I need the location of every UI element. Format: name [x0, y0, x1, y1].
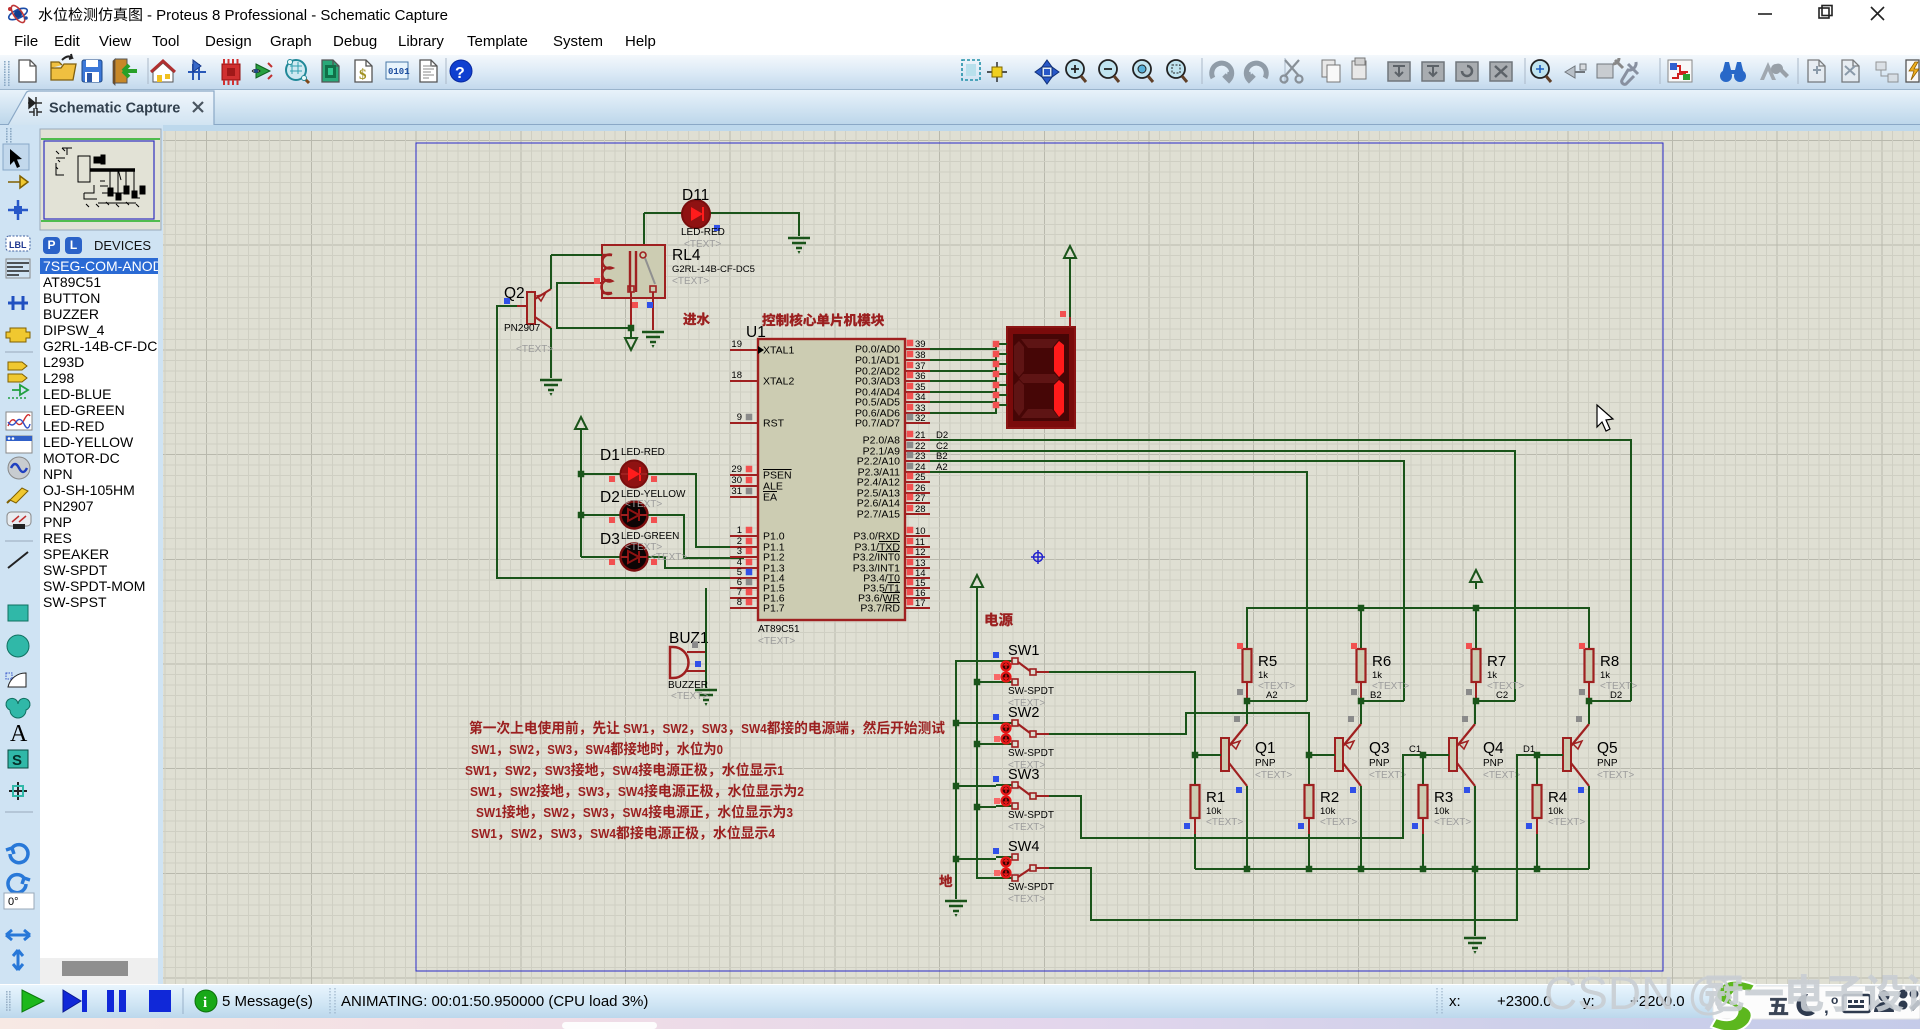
svg-text:SW3: SW3: [545, 764, 571, 778]
svg-text:39: 39: [915, 339, 926, 350]
svg-text:P2.7/A15: P2.7/A15: [857, 509, 900, 521]
svg-text:BUZZER: BUZZER: [668, 680, 708, 691]
svg-text:SW1: SW1: [1008, 643, 1039, 659]
svg-text:PN2907: PN2907: [504, 323, 541, 334]
svg-text:8: 8: [737, 597, 742, 608]
svg-text:SW1: SW1: [465, 764, 491, 778]
svg-text:R2: R2: [1320, 789, 1339, 806]
svg-text:D2: D2: [600, 489, 620, 506]
svg-text:10: 10: [915, 526, 926, 537]
svg-text:19: 19: [731, 339, 742, 350]
svg-text:Q2: Q2: [504, 285, 525, 302]
svg-text:PNP: PNP: [1597, 758, 1618, 769]
svg-text:SW3: SW3: [583, 806, 609, 820]
svg-text:17: 17: [915, 598, 926, 609]
svg-text:SW-SPDT: SW-SPDT: [1008, 882, 1054, 893]
svg-text:Schematic Capture: Schematic Capture: [49, 101, 180, 117]
svg-text:34: 34: [915, 392, 926, 403]
svg-text:3: 3: [786, 806, 793, 820]
svg-text:27: 27: [915, 493, 926, 504]
svg-text:S: S: [12, 752, 22, 769]
svg-text:<TEXT>: <TEXT>: [1008, 894, 1045, 905]
svg-text:<TEXT>: <TEXT>: [1597, 770, 1634, 781]
svg-text:32: 32: [915, 413, 926, 424]
svg-text:LED-RED: LED-RED: [681, 227, 725, 238]
svg-text:SW4: SW4: [741, 722, 767, 736]
svg-text:29: 29: [731, 464, 742, 475]
svg-text:B2: B2: [1370, 690, 1382, 701]
svg-text:<TEXT>: <TEXT>: [1548, 817, 1585, 828]
svg-text:x:: x:: [1449, 993, 1461, 1010]
svg-text:0°: 0°: [8, 896, 19, 908]
svg-text:0: 0: [717, 743, 724, 758]
svg-text:ANIMATING: 00:01:50.950000 (CP: ANIMATING: 00:01:50.950000 (CPU load 3%): [341, 993, 648, 1010]
svg-text:<TEXT>: <TEXT>: [1008, 822, 1045, 833]
svg-text:SW3: SW3: [547, 743, 572, 758]
svg-text:XTAL2: XTAL2: [763, 376, 794, 388]
svg-text:<TEXT>: <TEXT>: [1206, 817, 1243, 828]
svg-text:3: 3: [737, 546, 742, 557]
svg-text:D2: D2: [936, 430, 948, 441]
svg-text:R8: R8: [1600, 653, 1619, 670]
svg-text:PNP: PNP: [1483, 758, 1504, 769]
svg-text:SW-SPDT: SW-SPDT: [1008, 810, 1054, 821]
svg-text:10k: 10k: [1434, 806, 1450, 817]
svg-text:PNP: PNP: [1255, 758, 1276, 769]
svg-text:1: 1: [737, 525, 742, 536]
svg-text:9: 9: [737, 412, 742, 423]
svg-text:SW2: SW2: [505, 764, 531, 778]
svg-text:SW2: SW2: [509, 743, 534, 758]
svg-text:Q5: Q5: [1597, 740, 1618, 757]
svg-text:B2: B2: [936, 451, 948, 462]
svg-text:<TEXT>: <TEXT>: [672, 276, 709, 287]
svg-text:18: 18: [731, 370, 742, 381]
svg-text:1: 1: [777, 764, 784, 778]
svg-text:SW4: SW4: [585, 743, 610, 758]
svg-text:A2: A2: [1266, 690, 1278, 701]
svg-text:<TEXT>: <TEXT>: [1434, 817, 1471, 828]
svg-text:4: 4: [768, 827, 775, 841]
svg-text:SW2: SW2: [1008, 705, 1039, 721]
svg-text:SW1: SW1: [470, 785, 496, 799]
svg-text:D3: D3: [600, 531, 620, 548]
svg-text:RL4: RL4: [672, 247, 701, 264]
svg-text:SW3: SW3: [578, 785, 604, 799]
svg-text:31: 31: [731, 486, 742, 497]
svg-text:SW4: SW4: [1008, 839, 1039, 855]
svg-text:EA: EA: [763, 492, 777, 504]
svg-text:28: 28: [915, 504, 926, 515]
svg-text:38: 38: [915, 350, 926, 361]
svg-text:<TEXT>: <TEXT>: [1483, 770, 1520, 781]
svg-text:CSDN @: CSDN @: [1544, 967, 1734, 1019]
svg-text:PNP: PNP: [1369, 758, 1390, 769]
svg-text:C2: C2: [1496, 690, 1508, 701]
svg-text:2: 2: [797, 785, 804, 799]
svg-text:C1: C1: [1409, 744, 1421, 755]
svg-text:<TEXT>: <TEXT>: [1255, 770, 1292, 781]
svg-text:G2RL-14B-CF-DC5: G2RL-14B-CF-DC5: [672, 264, 755, 275]
svg-text:AT89C51: AT89C51: [758, 624, 800, 635]
svg-text:<TEXT>: <TEXT>: [758, 636, 795, 647]
svg-text:10k: 10k: [1548, 806, 1564, 817]
svg-text:Q3: Q3: [1369, 740, 1390, 757]
svg-text:<TEXT>: <TEXT>: [1369, 770, 1406, 781]
svg-text:SW1: SW1: [471, 743, 496, 758]
svg-text:SW4: SW4: [618, 785, 644, 799]
svg-text:D1: D1: [600, 447, 620, 464]
svg-text:1k: 1k: [1487, 670, 1497, 681]
svg-text:R3: R3: [1434, 789, 1453, 806]
svg-text:<TEXT>: <TEXT>: [516, 344, 553, 355]
svg-text:Q4: Q4: [1483, 740, 1504, 757]
svg-text:$: $: [359, 67, 367, 83]
svg-text:SW1: SW1: [471, 827, 497, 841]
svg-text:D11: D11: [682, 187, 709, 204]
svg-text:1k: 1k: [1372, 670, 1382, 681]
svg-text:R6: R6: [1372, 653, 1391, 670]
svg-text:SW1: SW1: [476, 806, 502, 820]
svg-text:R7: R7: [1487, 653, 1506, 670]
svg-text:- Proteus 8 Professional - Sch: - Proteus 8 Professional - Schematic Cap…: [147, 7, 448, 24]
svg-text:A2: A2: [936, 462, 948, 473]
svg-text:SW3: SW3: [1008, 767, 1039, 783]
svg-text:30: 30: [731, 475, 742, 486]
svg-text:<TEXT>: <TEXT>: [1320, 817, 1357, 828]
svg-text:10k: 10k: [1206, 806, 1222, 817]
svg-text:0101: 0101: [388, 67, 410, 77]
svg-text:Q1: Q1: [1255, 740, 1276, 757]
svg-text:SW2: SW2: [511, 827, 537, 841]
svg-text:P0.7/AD7: P0.7/AD7: [855, 418, 900, 430]
svg-text:A: A: [10, 721, 28, 747]
svg-text:R5: R5: [1258, 653, 1277, 670]
svg-text:LED-GREEN: LED-GREEN: [621, 531, 679, 542]
svg-text:D1: D1: [1523, 744, 1535, 755]
svg-text:SW3: SW3: [550, 827, 576, 841]
svg-text:U1: U1: [746, 324, 766, 341]
svg-text:36: 36: [915, 371, 926, 382]
svg-text:<TEXT>: <TEXT>: [671, 691, 708, 702]
svg-text:R1: R1: [1206, 789, 1225, 806]
svg-text:XTAL1: XTAL1: [763, 345, 794, 357]
svg-text:R4: R4: [1548, 789, 1567, 806]
svg-text:5 Message(s): 5 Message(s): [222, 993, 313, 1010]
svg-text:SW3: SW3: [702, 722, 728, 736]
svg-text:BUZ1: BUZ1: [669, 630, 709, 647]
svg-text:SW4: SW4: [590, 827, 616, 841]
svg-text:LBL: LBL: [9, 240, 27, 250]
svg-text:10k: 10k: [1320, 806, 1336, 817]
svg-text:SW-SPDT: SW-SPDT: [1008, 748, 1054, 759]
svg-text:12: 12: [915, 547, 926, 558]
svg-text:?: ?: [455, 65, 465, 82]
svg-text:LED-RED: LED-RED: [621, 447, 665, 458]
svg-text:1k: 1k: [1258, 670, 1268, 681]
svg-text:SW2: SW2: [543, 806, 569, 820]
svg-text:SW4: SW4: [612, 764, 638, 778]
svg-text:23: 23: [915, 451, 926, 462]
svg-text:RST: RST: [763, 418, 785, 430]
svg-text:SW2: SW2: [662, 722, 688, 736]
svg-text:21: 21: [915, 430, 926, 441]
svg-text:1k: 1k: [1600, 670, 1610, 681]
svg-text:25: 25: [915, 472, 926, 483]
svg-text:<TEXT>: <TEXT>: [625, 499, 662, 510]
svg-text:P3.7/RD: P3.7/RD: [860, 603, 900, 615]
svg-text:i: i: [203, 995, 207, 1011]
svg-text:P1.7: P1.7: [763, 603, 785, 615]
svg-text:SW4: SW4: [622, 806, 648, 820]
svg-text:<TEXT>: <TEXT>: [650, 552, 687, 563]
svg-text:SW-SPDT: SW-SPDT: [1008, 686, 1054, 697]
svg-text:SW2: SW2: [510, 785, 536, 799]
svg-text:D2: D2: [1610, 690, 1622, 701]
svg-text:SW1: SW1: [620, 722, 649, 736]
